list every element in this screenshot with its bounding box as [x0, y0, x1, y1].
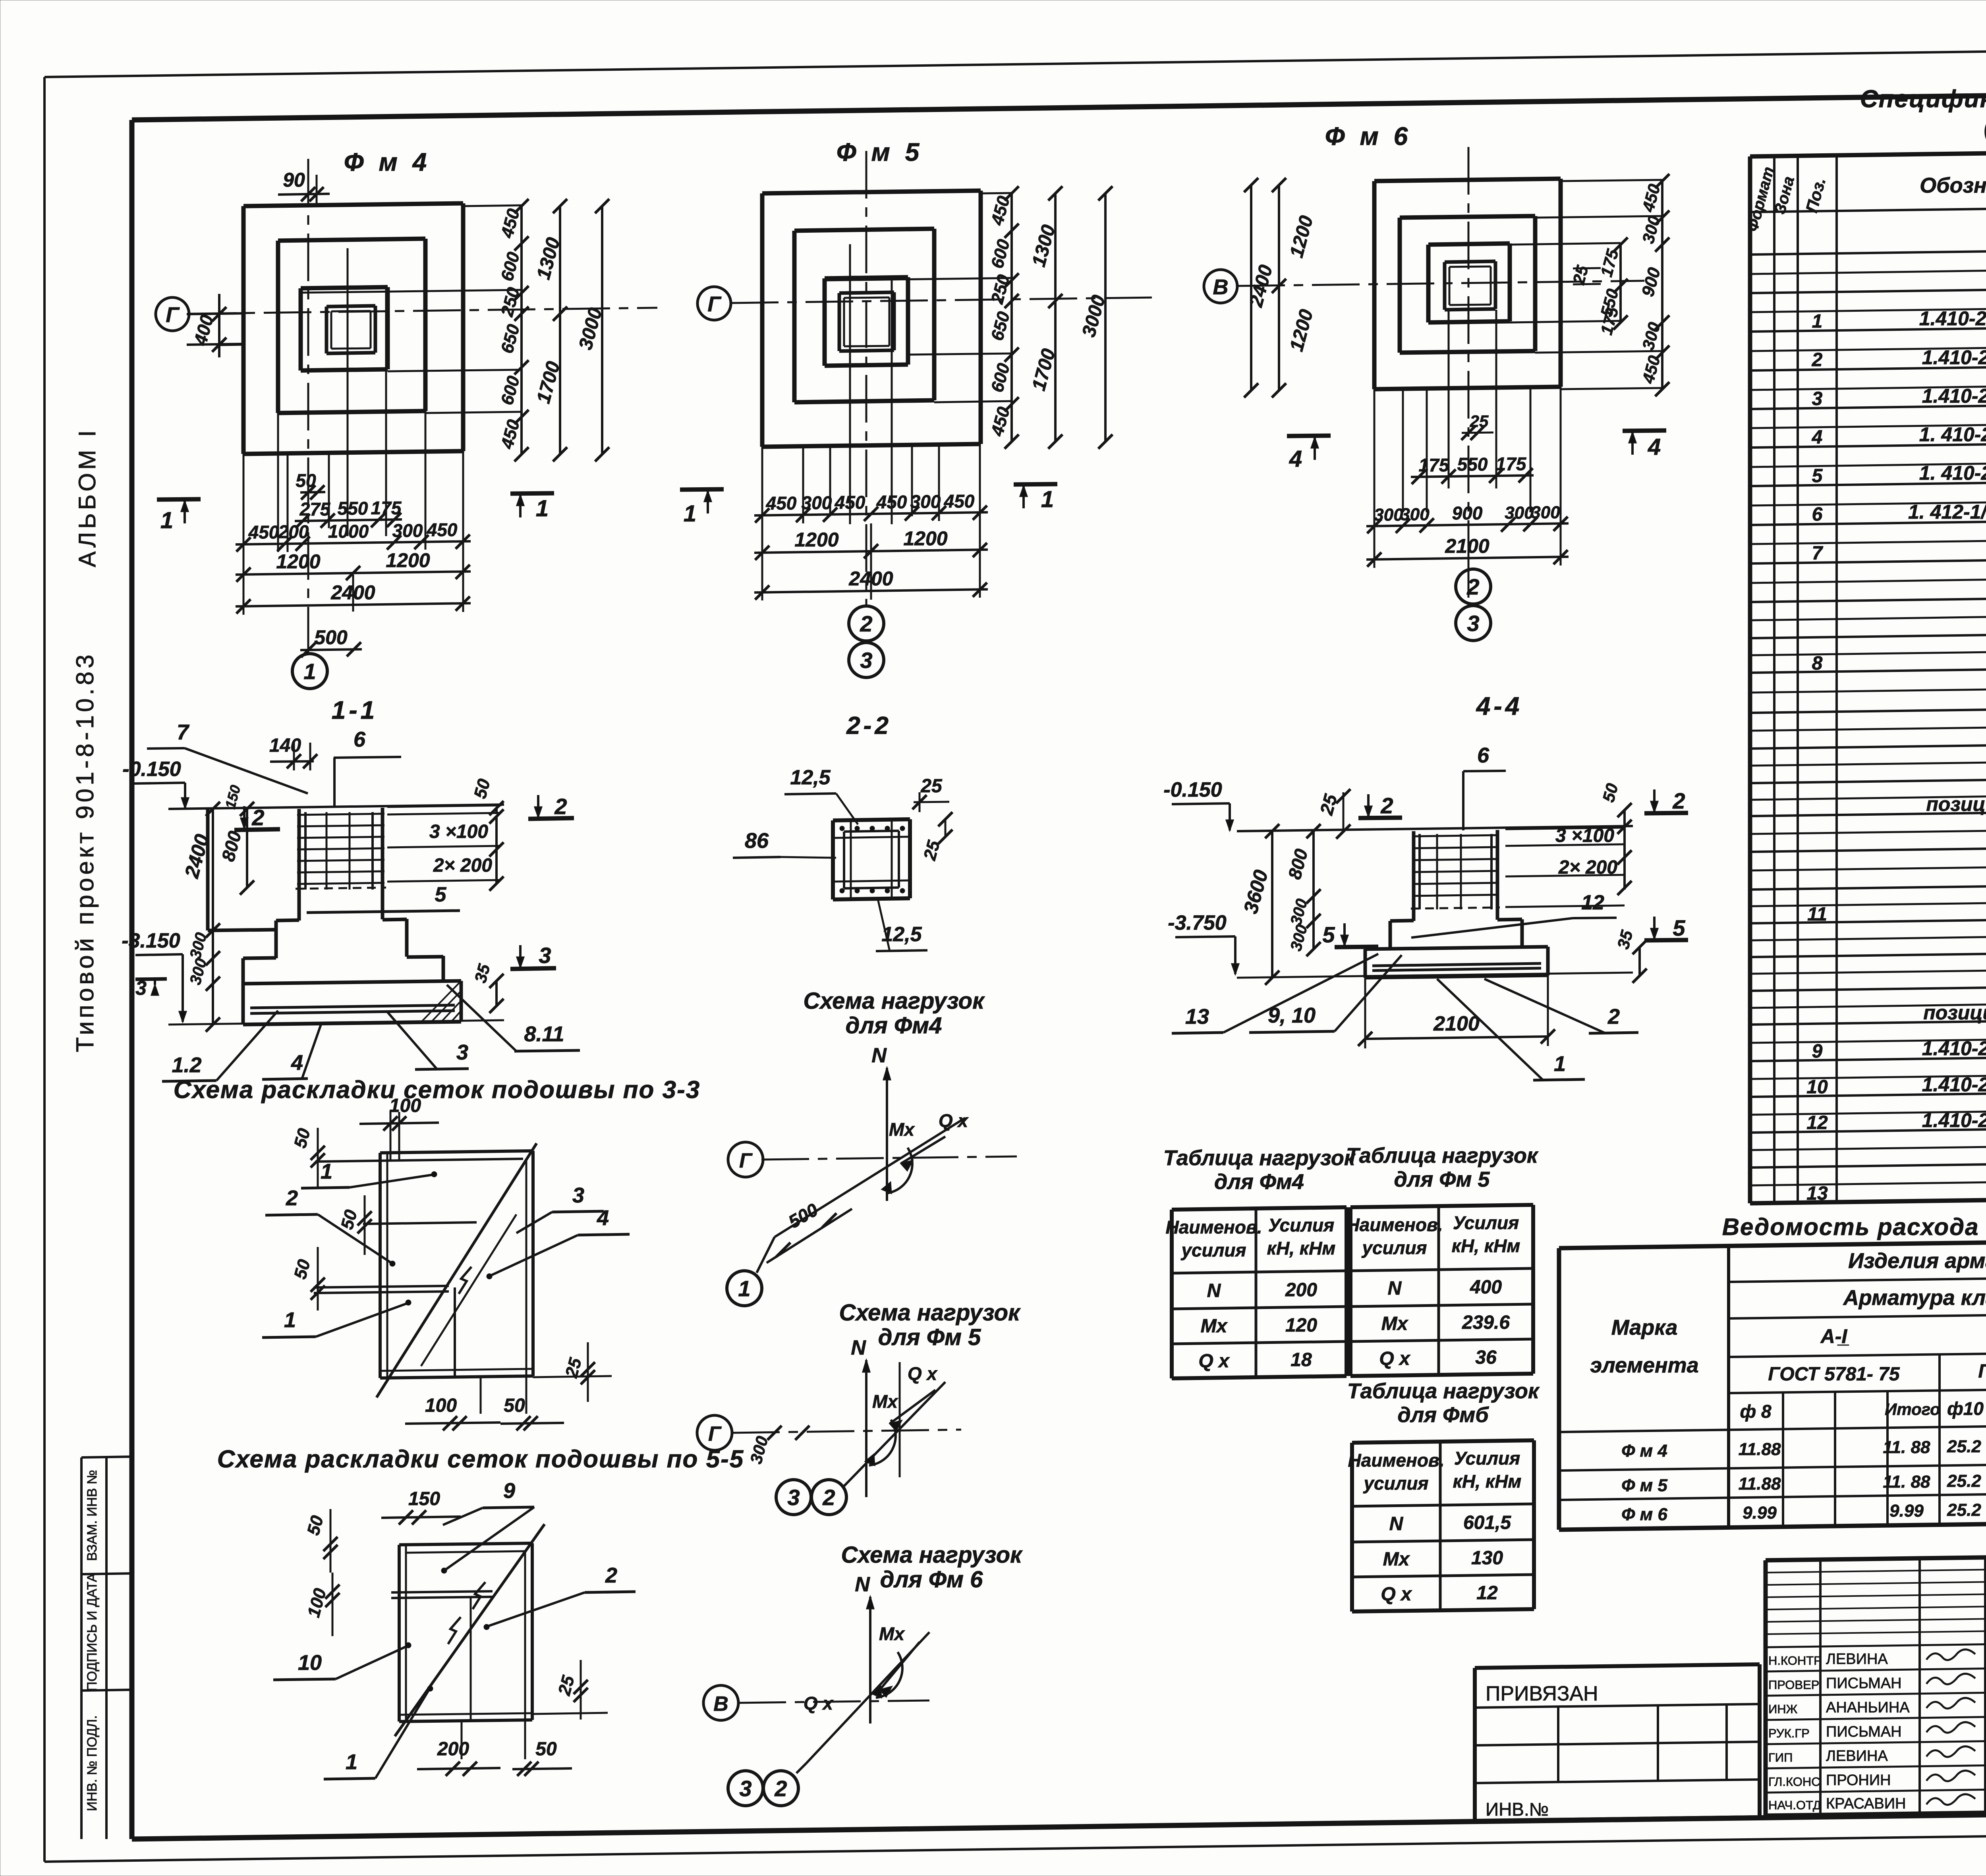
- svg-text:1. 412-1/77 вып.3: 1. 412-1/77 вып.3: [1908, 501, 1986, 523]
- svg-text:АНАНЬИНА: АНАНЬИНА: [1826, 1699, 1910, 1716]
- svg-text:9: 9: [503, 1479, 515, 1503]
- svg-text:3: 3: [539, 943, 551, 968]
- svg-text:АЛЬБОМ I: АЛЬБОМ I: [74, 427, 100, 567]
- svg-text:N: N: [871, 1044, 887, 1067]
- svg-text:1.410-2 , вып.1: 1.410-2 , вып.1: [1919, 307, 1986, 330]
- svg-text:13: 13: [1806, 1183, 1828, 1204]
- svg-text:Схема раскладки сеток подошвы: Схема раскладки сеток подошвы по 3-3: [174, 1076, 701, 1104]
- svg-text:Схема нагрузок: Схема нагрузок: [841, 1542, 1023, 1568]
- svg-text:для Фмб: для Фмб: [1397, 1403, 1489, 1427]
- svg-text:9: 9: [1812, 1041, 1823, 1062]
- svg-text:25: 25: [920, 776, 943, 797]
- svg-text:1: 1: [284, 1308, 296, 1332]
- svg-text:кН, кНм: кН, кНм: [1267, 1238, 1336, 1258]
- svg-text:8: 8: [1812, 653, 1823, 674]
- svg-text:усилия: усилия: [1363, 1473, 1428, 1494]
- svg-text:N: N: [1389, 1513, 1404, 1534]
- svg-text:2-2: 2-2: [846, 712, 892, 739]
- svg-text:50: 50: [535, 1739, 557, 1760]
- svg-text:В: В: [1213, 275, 1229, 299]
- svg-text:12,5: 12,5: [790, 766, 831, 789]
- svg-text:1200: 1200: [794, 529, 838, 551]
- svg-text:1: 1: [1812, 311, 1823, 332]
- svg-text:Усилия: Усилия: [1453, 1212, 1519, 1233]
- svg-text:86: 86: [745, 829, 769, 853]
- svg-text:1: 1: [160, 508, 173, 533]
- svg-text:5: 5: [435, 883, 447, 906]
- svg-text:9, 10: 9, 10: [1268, 1004, 1316, 1027]
- svg-text:2: 2: [251, 805, 264, 830]
- svg-text:для Фм4: для Фм4: [846, 1013, 942, 1038]
- svg-text:130: 130: [1471, 1548, 1503, 1569]
- svg-text:ф10: ф10: [1947, 1398, 1984, 1419]
- svg-text:Q x: Q x: [1381, 1584, 1412, 1605]
- svg-text:ГИП: ГИП: [1768, 1751, 1793, 1764]
- svg-text:Q x: Q x: [1379, 1348, 1411, 1369]
- svg-text:2: 2: [286, 1186, 298, 1210]
- svg-text:ПРИВЯЗАН: ПРИВЯЗАН: [1486, 1682, 1598, 1705]
- svg-text:Г: Г: [739, 1149, 753, 1172]
- svg-text:элемента: элемента: [1590, 1353, 1698, 1377]
- svg-text:3: 3: [456, 1040, 468, 1064]
- svg-text:2: 2: [554, 794, 567, 819]
- svg-text:1200: 1200: [276, 550, 320, 573]
- svg-text:Обозначение: Обозначение: [1920, 174, 1986, 197]
- svg-text:3: 3: [860, 648, 872, 673]
- svg-text:N: N: [1207, 1280, 1221, 1301]
- svg-text:10: 10: [298, 1651, 322, 1675]
- svg-text:175: 175: [1496, 454, 1527, 474]
- svg-text:12: 12: [1806, 1112, 1828, 1133]
- svg-text:11. 88: 11. 88: [1883, 1472, 1930, 1492]
- svg-text:8.11: 8.11: [524, 1022, 564, 1046]
- svg-text:1.410-2, вып.1: 1.410-2, вып.1: [1922, 1109, 1986, 1131]
- svg-text:РУК.ГР: РУК.ГР: [1768, 1726, 1810, 1740]
- svg-text:ГОСТ 5781- 75: ГОСТ 5781- 75: [1978, 1361, 1986, 1382]
- svg-text:кН, кНм: кН, кНм: [1452, 1235, 1520, 1256]
- svg-text:для Фм 5: для Фм 5: [1394, 1168, 1490, 1191]
- svg-text:Арматура класса: Арматура класса: [1843, 1286, 1986, 1310]
- svg-text:усилия: усилия: [1361, 1237, 1427, 1258]
- svg-text:2400: 2400: [330, 581, 375, 604]
- svg-text:100: 100: [425, 1395, 457, 1416]
- svg-text:200: 200: [437, 1739, 469, 1760]
- svg-text:4: 4: [291, 1051, 303, 1075]
- svg-text:4: 4: [597, 1206, 609, 1230]
- svg-text:140: 140: [269, 735, 301, 756]
- svg-text:5: 5: [1322, 922, 1335, 947]
- svg-text:Усилия: Усилия: [1268, 1215, 1334, 1235]
- svg-text:Ф м 4: Ф м 4: [1621, 1441, 1667, 1461]
- svg-text:90: 90: [283, 169, 305, 191]
- svg-text:2400: 2400: [848, 567, 893, 590]
- svg-text:300: 300: [392, 520, 423, 541]
- svg-text:1. 410-2, вып.1: 1. 410-2, вып.1: [1919, 462, 1986, 484]
- svg-text:Ф м 6: Ф м 6: [1621, 1505, 1667, 1524]
- svg-text:ИНВ.№: ИНВ.№: [1486, 1799, 1549, 1820]
- svg-text:(Фм 4; Фм 5; Фмб): (Фм 4; Фм 5; Фмб): [1984, 114, 1986, 140]
- svg-text:для Фм 6: для Фм 6: [880, 1567, 983, 1592]
- svg-text:2100: 2100: [1433, 1012, 1480, 1035]
- svg-text:Г: Г: [708, 1422, 722, 1446]
- svg-text:3: 3: [1812, 388, 1823, 409]
- svg-text:2× 200: 2× 200: [1558, 857, 1617, 878]
- svg-text:Q x: Q x: [804, 1693, 834, 1714]
- svg-text:N: N: [1388, 1278, 1402, 1299]
- svg-text:3: 3: [787, 1485, 800, 1510]
- svg-text:2: 2: [1466, 574, 1479, 599]
- svg-text:300: 300: [802, 492, 832, 513]
- svg-text:175: 175: [1419, 455, 1450, 475]
- svg-text:Таблица нагрузок: Таблица нагрузок: [1163, 1146, 1356, 1170]
- svg-text:100: 100: [389, 1095, 421, 1116]
- svg-text:Mx: Mx: [1383, 1549, 1410, 1570]
- svg-text:кН, кНм: кН, кНм: [1453, 1471, 1522, 1492]
- svg-text:1: 1: [1554, 1052, 1566, 1076]
- svg-text:1.410-2, вып.1: 1.410-2, вып.1: [1922, 1037, 1986, 1060]
- svg-text:2: 2: [1812, 349, 1823, 371]
- svg-text:Ф м 4: Ф м 4: [344, 148, 431, 176]
- svg-text:4-4: 4-4: [1476, 692, 1523, 720]
- svg-text:Mx: Mx: [889, 1119, 915, 1140]
- svg-text:1: 1: [346, 1750, 357, 1774]
- svg-text:50: 50: [296, 470, 316, 491]
- svg-text:300: 300: [1531, 503, 1560, 522]
- svg-text:ПРОНИН: ПРОНИН: [1826, 1772, 1891, 1789]
- svg-text:6: 6: [1812, 504, 1823, 525]
- svg-text:А-I̲: А-I̲: [1820, 1325, 1849, 1347]
- svg-text:2: 2: [822, 1485, 835, 1510]
- svg-text:2: 2: [860, 611, 872, 636]
- svg-text:175: 175: [371, 498, 402, 518]
- svg-text:ЛЕВИНА: ЛЕВИНА: [1826, 1748, 1888, 1764]
- svg-text:6: 6: [1477, 743, 1489, 767]
- svg-text:12: 12: [1476, 1583, 1498, 1604]
- svg-text:450: 450: [248, 522, 279, 542]
- svg-text:1: 1: [684, 501, 696, 527]
- svg-text:1: 1: [303, 659, 316, 684]
- svg-text:25.2: 25.2: [1947, 1500, 1981, 1520]
- svg-text:120: 120: [1285, 1315, 1317, 1336]
- svg-text:-0.150: -0.150: [1163, 778, 1222, 801]
- svg-text:3: 3: [1467, 611, 1479, 636]
- svg-text:N: N: [855, 1573, 870, 1596]
- svg-text:Марка: Марка: [1611, 1316, 1678, 1339]
- svg-text:4: 4: [1289, 446, 1302, 472]
- svg-text:Mx: Mx: [1201, 1316, 1228, 1337]
- svg-text:1.410-2, вып.1: 1.410-2, вып.1: [1922, 346, 1986, 369]
- svg-text:1.410-2, вып.1: 1.410-2, вып.1: [1922, 385, 1986, 407]
- svg-text:-3.750: -3.750: [1168, 911, 1227, 934]
- svg-text:400: 400: [1470, 1277, 1502, 1298]
- svg-text:10: 10: [1806, 1077, 1828, 1098]
- svg-text:4: 4: [1648, 434, 1661, 460]
- svg-text:Усилия: Усилия: [1454, 1448, 1520, 1469]
- svg-text:Наименов.: Наименов.: [1166, 1217, 1262, 1237]
- svg-text:1. 410-2, вып.1: 1. 410-2, вып.1: [1919, 423, 1986, 446]
- svg-text:2: 2: [1672, 788, 1685, 813]
- svg-text:Г: Г: [707, 292, 722, 316]
- svg-text:позиции 1÷6,: позиции 1÷6,: [1926, 793, 1986, 815]
- svg-text:25.2: 25.2: [1947, 1437, 1981, 1456]
- svg-text:239.6: 239.6: [1462, 1312, 1510, 1333]
- svg-text:450: 450: [427, 519, 458, 540]
- svg-text:ВЗАМ. ИНВ №: ВЗАМ. ИНВ №: [85, 1470, 100, 1561]
- svg-text:ПРОВЕР: ПРОВЕР: [1768, 1678, 1819, 1692]
- svg-text:-3.150: -3.150: [122, 929, 180, 952]
- svg-text:900: 900: [1452, 503, 1483, 523]
- svg-text:3: 3: [739, 1776, 752, 1801]
- svg-text:ЛЕВИНА: ЛЕВИНА: [1826, 1651, 1888, 1668]
- svg-text:Схема раскладки сеток подошвы: Схема раскладки сеток подошвы по 5-5: [217, 1446, 744, 1473]
- svg-text:1: 1: [321, 1160, 332, 1183]
- svg-text:Схема нагрузок: Схема нагрузок: [839, 1300, 1021, 1326]
- svg-text:200: 200: [1285, 1280, 1317, 1301]
- svg-text:ф 8: ф 8: [1740, 1401, 1771, 1422]
- svg-text:11.88: 11.88: [1739, 1440, 1781, 1459]
- svg-text:300: 300: [1400, 505, 1430, 524]
- svg-text:3: 3: [572, 1183, 584, 1207]
- svg-text:1200: 1200: [386, 549, 430, 571]
- svg-text:1: 1: [536, 496, 549, 521]
- svg-text:3 ×100: 3 ×100: [429, 821, 488, 842]
- svg-text:1.2: 1.2: [172, 1053, 201, 1077]
- svg-text:КРАСАВИН: КРАСАВИН: [1826, 1795, 1906, 1812]
- svg-text:7: 7: [177, 720, 190, 744]
- svg-text:36: 36: [1475, 1347, 1497, 1368]
- svg-text:Q x: Q x: [1198, 1351, 1230, 1372]
- svg-text:5: 5: [1812, 465, 1823, 486]
- svg-text:позиции 1,2,6: позиции 1,2,6: [1923, 1002, 1986, 1024]
- svg-text:50: 50: [504, 1395, 525, 1416]
- svg-text:13: 13: [1185, 1005, 1209, 1029]
- svg-text:НАЧ.ОТД: НАЧ.ОТД: [1768, 1798, 1821, 1812]
- svg-text:9.99: 9.99: [1889, 1501, 1924, 1521]
- svg-text:1: 1: [738, 1276, 750, 1301]
- svg-text:450: 450: [835, 492, 865, 513]
- svg-text:Итого: Итого: [1885, 1400, 1940, 1419]
- svg-text:2: 2: [1607, 1005, 1620, 1029]
- svg-text:2× 200: 2× 200: [433, 855, 492, 876]
- svg-text:Mx: Mx: [879, 1623, 905, 1644]
- svg-text:ПОДПИСЬ И ДАТА: ПОДПИСЬ И ДАТА: [85, 1573, 100, 1691]
- svg-text:12: 12: [1581, 891, 1604, 914]
- svg-text:усилия: усилия: [1180, 1240, 1246, 1260]
- svg-text:300: 300: [910, 491, 941, 512]
- svg-text:Mx: Mx: [872, 1391, 898, 1412]
- svg-text:N: N: [851, 1336, 866, 1359]
- svg-text:450: 450: [876, 492, 907, 512]
- svg-text:Ф м 6: Ф м 6: [1325, 122, 1412, 151]
- svg-text:550: 550: [338, 498, 368, 519]
- svg-text:Mx: Mx: [1381, 1313, 1409, 1334]
- svg-text:11.88: 11.88: [1739, 1474, 1781, 1494]
- svg-text:Г: Г: [166, 303, 180, 327]
- svg-text:1200: 1200: [903, 527, 947, 550]
- svg-text:Ведомость расхода стали на: Ведомость расхода стали на элемент, кг: [1722, 1214, 1986, 1240]
- svg-text:1-1: 1-1: [332, 696, 378, 724]
- svg-text:275: 275: [299, 499, 331, 519]
- svg-text:Н.КОНТР: Н.КОНТР: [1768, 1654, 1822, 1668]
- svg-text:ПИСЬМАН: ПИСЬМАН: [1826, 1724, 1902, 1740]
- svg-text:1000: 1000: [328, 521, 369, 542]
- svg-text:200: 200: [278, 521, 309, 542]
- svg-text:601,5: 601,5: [1463, 1512, 1511, 1533]
- svg-text:500: 500: [314, 626, 348, 648]
- svg-text:ИНВ. № ПОДЛ.: ИНВ. № ПОДЛ.: [85, 1715, 100, 1811]
- svg-text:9.99: 9.99: [1743, 1503, 1777, 1523]
- svg-text:550: 550: [1457, 454, 1488, 475]
- svg-text:ГЛ.КОНС: ГЛ.КОНС: [1768, 1775, 1820, 1789]
- svg-text:ГОСТ 5781- 75: ГОСТ 5781- 75: [1768, 1364, 1900, 1385]
- svg-text:4: 4: [1812, 427, 1823, 448]
- svg-text:Изделия арматурные: Изделия арматурные: [1848, 1249, 1986, 1273]
- svg-text:Q x: Q x: [939, 1110, 969, 1131]
- svg-text:450: 450: [766, 493, 797, 513]
- svg-text:5: 5: [1673, 915, 1685, 940]
- svg-text:450: 450: [944, 491, 975, 511]
- svg-text:для Фм4: для Фм4: [1214, 1170, 1304, 1194]
- svg-text:300: 300: [1505, 503, 1534, 523]
- svg-text:Q x: Q x: [908, 1363, 938, 1384]
- svg-text:11. 88: 11. 88: [1883, 1438, 1930, 1457]
- svg-text:Типовой проект 901-8-10.83: Типовой проект 901-8-10.83: [71, 651, 99, 1052]
- svg-text:150: 150: [408, 1488, 440, 1509]
- svg-text:2: 2: [605, 1563, 617, 1587]
- svg-text:3: 3: [135, 977, 147, 999]
- svg-text:11: 11: [1807, 904, 1827, 925]
- svg-text:В: В: [713, 1693, 728, 1716]
- svg-text:Спецификация монолитных фунд: Спецификация монолитных фундаментов: [1860, 85, 1986, 113]
- svg-text:3 ×100: 3 ×100: [1555, 825, 1614, 846]
- svg-text:2: 2: [774, 1776, 787, 1801]
- svg-text:7: 7: [1812, 543, 1824, 564]
- svg-text:300: 300: [1374, 505, 1403, 525]
- svg-text:Наименов.: Наименов.: [1347, 1214, 1443, 1235]
- svg-text:-0.150: -0.150: [122, 758, 181, 781]
- svg-text:для Фм 5: для Фм 5: [878, 1324, 981, 1350]
- svg-text:25.2: 25.2: [1947, 1471, 1981, 1491]
- svg-text:Наименов.: Наименов.: [1348, 1450, 1445, 1471]
- svg-text:Ф м 5: Ф м 5: [1621, 1476, 1667, 1495]
- svg-text:Таблица нагрузок: Таблица нагрузок: [1346, 1144, 1539, 1168]
- svg-text:1: 1: [1041, 486, 1054, 512]
- svg-text:2100: 2100: [1445, 535, 1489, 557]
- svg-text:Схема нагрузок: Схема нагрузок: [803, 988, 985, 1014]
- svg-text:Ф м 5: Ф м 5: [837, 138, 923, 166]
- svg-text:6: 6: [354, 728, 366, 751]
- svg-text:Таблица нагрузок: Таблица нагрузок: [1347, 1379, 1540, 1403]
- svg-text:2: 2: [1380, 793, 1393, 818]
- svg-text:1.410-2, вып.1: 1.410-2, вып.1: [1922, 1073, 1986, 1096]
- svg-text:18: 18: [1291, 1349, 1312, 1370]
- svg-text:ПИСЬМАН: ПИСЬМАН: [1826, 1675, 1902, 1692]
- svg-text:ИНЖ: ИНЖ: [1768, 1702, 1798, 1716]
